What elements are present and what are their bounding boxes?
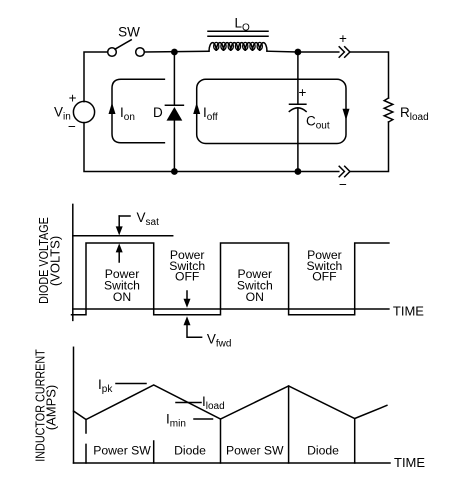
diode voltage plot y-axis label <box>36 217 62 304</box>
wire top-left from Vin to switch <box>84 52 108 102</box>
divider at first peak <box>153 441 155 463</box>
svg-text:−: − <box>339 177 347 192</box>
inductor current triangle waveform <box>74 385 387 420</box>
voltage source Vin <box>54 91 95 135</box>
svg-text:SW: SW <box>118 25 140 40</box>
diode voltage square waveform <box>72 243 389 315</box>
divider at first valley <box>85 420 87 464</box>
wire switch to inductor <box>144 50 209 53</box>
Vfwd annotation <box>184 291 232 350</box>
wire bottom from chevron to Vin <box>84 123 339 172</box>
inductor current plot y-axis label <box>33 349 59 462</box>
inductor current time axis <box>74 462 391 464</box>
wire inductor to output node <box>267 50 339 53</box>
Power SW region label 1 <box>93 444 151 458</box>
diode voltage zero axis line <box>73 308 389 310</box>
Vsat annotation <box>116 210 159 262</box>
switch SW <box>108 25 145 57</box>
junction bottom diode node <box>171 168 178 175</box>
power switch OFF label 1 <box>169 248 205 284</box>
junction bottom capacitor node <box>295 168 302 175</box>
output terminal chevrons top <box>339 31 350 57</box>
output terminal chevrons bottom <box>339 166 350 192</box>
junction output node <box>295 49 302 56</box>
inductor LO <box>208 16 268 52</box>
svg-text:(VOLTS): (VOLTS) <box>48 236 63 286</box>
resistor Rload <box>384 98 428 123</box>
inductor current plot y-axis <box>73 347 75 463</box>
TIME label diode voltage plot <box>393 303 424 318</box>
capacitor Cout <box>289 52 330 172</box>
svg-text:(AMPS): (AMPS) <box>44 385 59 431</box>
svg-text:TIME: TIME <box>393 303 424 318</box>
Vin reference level line <box>73 235 173 237</box>
Iload annotation <box>176 394 225 412</box>
Power SW region label 2 <box>226 444 284 458</box>
current loop Ioff <box>193 79 349 143</box>
svg-text:Diode: Diode <box>174 444 206 458</box>
divider at second valley <box>220 419 222 463</box>
svg-text:+: + <box>299 85 307 100</box>
svg-text:Power SW: Power SW <box>93 444 151 458</box>
diode D <box>153 52 183 172</box>
junction switch node <box>171 49 178 56</box>
svg-text:TIME: TIME <box>394 455 425 470</box>
divider at second peak <box>288 386 290 463</box>
svg-text:Power SW: Power SW <box>226 444 284 458</box>
svg-text:+: + <box>69 91 77 106</box>
power switch OFF label 2 <box>306 248 342 284</box>
svg-text:D: D <box>153 105 163 120</box>
Diode region label 2 <box>307 444 339 458</box>
wire Rload to bottom-right corner <box>351 122 389 172</box>
TIME label inductor current plot <box>394 455 425 470</box>
power switch ON label 1 <box>104 267 140 304</box>
Diode region label 1 <box>174 444 206 458</box>
svg-text:+: + <box>339 31 347 46</box>
divider at third valley <box>354 419 356 464</box>
current loop Ion <box>109 79 165 143</box>
power switch ON label 2 <box>237 267 273 304</box>
svg-text:Diode: Diode <box>307 444 339 458</box>
Imin annotation <box>166 412 213 430</box>
wire top-right to Rload <box>351 52 389 98</box>
Ipk annotation <box>98 377 146 395</box>
diode voltage plot y-axis <box>72 204 74 320</box>
